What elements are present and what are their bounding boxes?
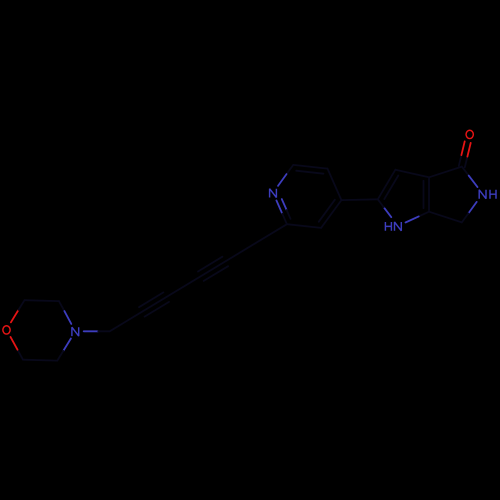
pyrrole bond C2=C3 [378,170,396,200]
pyridine bond C5=C6 [293,165,327,169]
pyrrole bond C3-C3a [395,170,429,178]
atom label H of HN (pyrrole) [385,222,391,231]
atom label O (morpholine) [3,326,10,334]
diyne chain main line CH2 to pyridine [110,224,287,331]
triple bond side lines 2 (-) [198,257,222,272]
atom label N (pyridine) [270,189,277,198]
atom label N (morpholine) [72,327,79,336]
pyridine bond C2-C3 [287,224,321,228]
lactam bond C4-N5 [462,167,469,176]
pyrrole inner line C3a=C6a [423,181,425,208]
pyridine bond C4-C5 [328,169,342,201]
fusion bond C3a=C6a [428,177,430,211]
triple bond side lines 1 (+) [145,302,169,317]
triple bond side lines 1 (-) [139,292,163,307]
atom label O (carbonyl) [466,130,473,138]
bond N-CH2 (morpholine to chain) [84,330,99,332]
carbonyl C=O line 1 [465,157,468,168]
lactam bond C3a-C4 [429,167,462,178]
pyrrole bond C6a-N1 [419,212,429,217]
morpholine bond C-O (lower left) [18,350,24,360]
atom label N of HN (pyrrole) [395,222,402,231]
bond pyridine C4 - pyrrole C2 [341,198,377,201]
pyridine bond C3=C4 [321,200,341,228]
pyrrole inner line C2=C3 [384,176,398,200]
pyridine bond C6-N [287,165,294,174]
triple bond side lines 2 (+) [204,266,228,281]
pyridine inner line C3=C4 [319,200,335,222]
morpholine bond N-C (lower right) [63,339,71,351]
carbonyl C=O line 2 [459,155,462,166]
lactam bond N5-C6 [468,202,476,214]
morpholine bond C-C (top) [25,299,59,302]
morpholine bond C-N (upper right) [59,301,65,311]
pyridine inner line C5=C6 [296,171,323,174]
atom label N of NH (lactam) [479,190,486,199]
pyrrole bond N1-C2 [384,207,392,217]
pyridine bond N=C2 [276,200,282,213]
lactam bond C6-C6a [429,212,462,223]
pyridine inner line N=C2 [282,199,287,210]
morpholine bond O-C (upper left) [11,310,19,322]
morpholine bond C-C (bottom) [23,359,57,362]
atom label H of NH (lactam) [490,190,496,199]
